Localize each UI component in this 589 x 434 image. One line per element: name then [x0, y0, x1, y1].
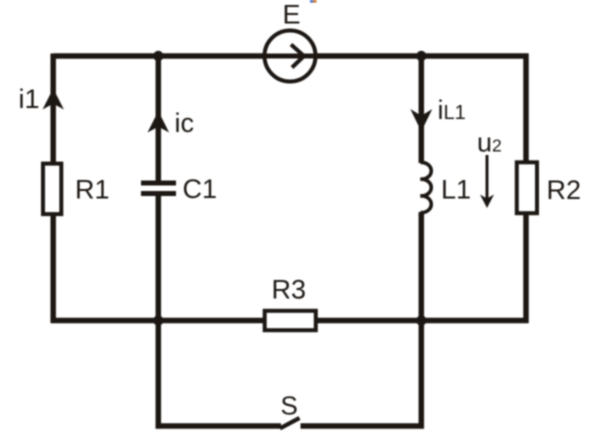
node: junction dot bottom C1 branch [153, 315, 163, 325]
wire C1 branch below capacitor [156, 196, 162, 321]
wire top: E source to right corner [317, 53, 529, 59]
svg-text:R3: R3 [272, 275, 307, 305]
wire right branch vertical above R2 [523, 54, 529, 164]
current arrow i1 head [43, 89, 64, 110]
wire switch loop bottom right segment [301, 423, 424, 429]
svg-text:L1: L1 [441, 175, 471, 205]
svg-text:ic: ic [175, 108, 195, 138]
svg-text:i1: i1 [19, 84, 40, 114]
svg-text:R1: R1 [75, 175, 110, 205]
wire left branch vertical (R1 branch) [50, 54, 56, 165]
capacitor C1 top plate [141, 181, 176, 186]
svg-text:R2: R2 [547, 175, 582, 205]
wire left branch below R1 [50, 214, 56, 323]
current arrow iL1 head [410, 109, 432, 132]
wire switch loop left vertical [156, 321, 162, 429]
source E internal wire [263, 54, 317, 59]
source E arrowhead [291, 45, 304, 68]
node: junction dot top L1 branch [416, 51, 426, 61]
voltage arrow u2 stem [486, 155, 489, 201]
resistor R3 body [265, 311, 316, 330]
wire top: left corner to E source [53, 53, 263, 59]
resistor R2 body [517, 162, 537, 213]
wire bottom: left corner to R3 [51, 318, 266, 324]
capacitor C1 bottom plate [141, 191, 176, 196]
wire L1 branch above inductor [419, 56, 425, 163]
wire switch loop bottom left segment [156, 423, 281, 429]
wire bottom: R3 to right corner [314, 318, 529, 324]
wire C1 branch above capacitor [156, 56, 162, 181]
switch S lever [280, 418, 300, 428]
resistor R1 body [43, 164, 61, 215]
svg-text:iL1: iL1 [438, 95, 466, 125]
svg-text:C1: C1 [183, 174, 218, 204]
svg-text:E: E [283, 0, 301, 30]
node: junction dot top C1 branch [153, 51, 163, 61]
voltage arrow u2 head [480, 195, 494, 209]
svg-text:S: S [281, 391, 298, 421]
wire switch loop right vertical [419, 321, 425, 429]
wire right branch vertical below R2 [523, 213, 529, 323]
inductor L1 coil [420, 162, 431, 212]
svg-text:u2: u2 [477, 128, 502, 158]
wire L1 branch below inductor [419, 212, 425, 321]
current arrow ic head [148, 111, 170, 133]
source E circle [265, 31, 316, 82]
cursor artifact top right [310, 0, 317, 3]
node: junction dot bottom L1 branch [416, 315, 426, 325]
